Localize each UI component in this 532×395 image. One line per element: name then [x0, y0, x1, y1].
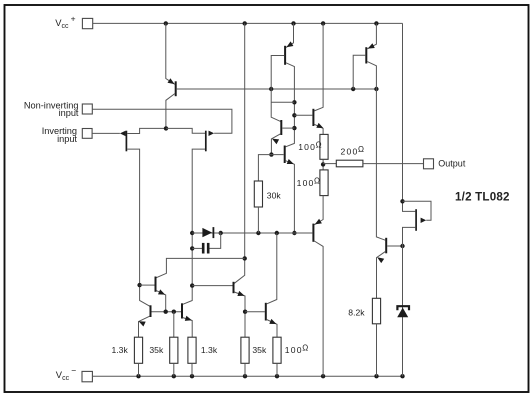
transistor Q5 emitter wire to R7: [314, 124, 323, 134]
transistor Q6 emitter arrow: [287, 159, 294, 164]
resistor R7 100ohm: [320, 134, 328, 159]
transistor Q11 emitter arrow: [237, 291, 244, 296]
resistor R2 35k: [170, 337, 178, 363]
wire node to R9: [323, 163, 336, 165]
transistor Q11 base wire: [192, 285, 232, 287]
wire R10 to Vcc-: [376, 324, 378, 376]
transistor Q4 (NPN) collector wire from bus: [271, 89, 280, 121]
transistor Q3 base wire to bus: [353, 55, 365, 89]
transistor Q7 (PNP) emitter arrow: [315, 219, 322, 225]
transistor Q2 emitter arrow: [286, 41, 293, 47]
terminal Vcc+: [82, 18, 92, 28]
transistor Q13 emitter arrow: [377, 257, 384, 263]
wire R4 to Vcc-: [244, 363, 246, 376]
transistor J2 (input JFET) gate bar: [205, 131, 207, 152]
wire Q12 base line: [245, 311, 265, 313]
wire R3 to Vcc-: [191, 363, 193, 376]
transistor Q1 emitter arrow: [168, 78, 175, 84]
resistor R8 100ohm: [320, 170, 328, 196]
wire Q9/Q10 base line: [152, 311, 182, 313]
transistor Q4 emitter wire: [271, 134, 280, 155]
transistor Q3 emitter arrow: [368, 43, 375, 48]
transistor Q8 base wire: [140, 284, 155, 286]
node Q13 base junction: [400, 244, 404, 248]
node diode line junctions: [219, 231, 223, 235]
transistor J1 source wire to tail: [127, 128, 166, 133]
node middle rail junction: [243, 256, 247, 260]
node base bus junctions: [269, 87, 273, 91]
svg-text:Output: Output: [438, 159, 466, 169]
transistor Q8 emitter arrow: [158, 289, 165, 294]
transistor J3 source wire down to Q13 base and D2: [403, 227, 416, 376]
resistor R5 100ohm: [273, 337, 281, 363]
transistor J2 drain wire down to Q10 collector: [183, 149, 205, 304]
resistor R4 35k: [241, 337, 249, 363]
capacitor C1 plates: [202, 243, 205, 254]
transistor Q6 base wire to R6 30k: [258, 155, 283, 181]
transistor J1 drain wire down to Q9 collector: [127, 149, 150, 306]
transistor Q12 (NPN) bar: [265, 303, 267, 321]
diode D1: [202, 228, 212, 237]
transistor Q11 (NPN) bar: [233, 282, 235, 293]
svg-text:35k: 35k: [149, 345, 164, 355]
resistor R3 1.3k: [188, 337, 196, 363]
transistor Q13 (NPN) bar: [385, 238, 387, 254]
wire R8 to Q7 emitter: [314, 196, 323, 225]
transistor Q9 (NPN) bar: [150, 305, 152, 317]
transistor Q10 emitter wire to R3: [183, 318, 192, 338]
transistor Q5 bar: [312, 109, 314, 126]
wire Q1 base bus: [177, 88, 377, 90]
wire Q4 collector tie to middle column: [271, 101, 294, 103]
transistor Q12 collector wire up to diode line: [267, 233, 277, 304]
terminal non-inverting input: [82, 104, 92, 114]
node J3 gate/drain junction: [400, 199, 404, 203]
transistor J1 gate bar: [125, 131, 127, 152]
transistor Q8 emitter wire: [156, 291, 165, 312]
transistor Q1 bar: [175, 81, 177, 96]
wire diode line (Q7 base line): [192, 232, 312, 234]
transistor Q12 emitter wire to R5: [267, 320, 277, 338]
transistor J3 gate loop wire: [403, 201, 432, 220]
svg-text:8.2k: 8.2k: [348, 307, 365, 317]
transistor Q6 emitter wire down middle column: [286, 161, 295, 233]
node tail junction: [164, 126, 168, 130]
diode D2: [397, 308, 408, 318]
transistor Q2 collector wire down middle column: [286, 63, 295, 147]
node Q6 emitter column to diode line junction: [292, 231, 296, 235]
transistor Q2 (PNP) emitter wire from Vcc+: [286, 23, 294, 47]
svg-text:1.3k: 1.3k: [112, 345, 129, 355]
capacitor C1 left wire: [192, 247, 202, 249]
transistor Q11 emitter wire: [234, 292, 245, 337]
wire R7 to node: [322, 159, 324, 170]
transistor J3 gate arrow: [421, 218, 427, 223]
transistor Q8 (NPN) bar: [155, 277, 157, 292]
transistor J2 gate arrow: [209, 131, 215, 136]
svg-text:input: input: [57, 134, 77, 144]
transistor J3 (JFET) gate bar: [415, 209, 417, 231]
wire inverting input to J1 gate: [92, 132, 120, 134]
transistor Q5 base wire: [294, 114, 312, 116]
wire D1 cathode to line: [214, 232, 220, 234]
svg-text:30k: 30k: [267, 191, 282, 201]
wire Q8 collector link: [156, 258, 244, 277]
wire Vcc- rail: [92, 375, 402, 377]
transistor Q4 bar: [280, 120, 282, 135]
transistor Q1 (PNP) emitter wire from Vcc+: [166, 23, 175, 84]
transistor Q7 collector wire to Vcc-: [314, 241, 323, 376]
wire non-inverting input to J2 gate: [92, 109, 232, 133]
node Q4 emitter / Q6 base junction: [269, 152, 273, 156]
transistor Q6 (NPN) bar: [284, 146, 286, 164]
transistor Q2 bar: [284, 46, 286, 65]
wire Vcc+ right rail down to J3: [403, 23, 416, 211]
transistor Q5 (NPN) collector wire from Vcc+: [314, 23, 323, 111]
wire tail to J2 source: [166, 128, 205, 133]
transistor Q12 emitter arrow: [269, 319, 276, 324]
transistor Q3 collector wire down to Q13: [367, 62, 385, 241]
transistor Q4 emitter arrow: [272, 139, 279, 145]
wire Vcc+ middle rail down to Q11 collector: [234, 23, 244, 283]
transistor Q9 emitter wire to R1: [139, 316, 150, 337]
transistor Q5 emitter arrow: [316, 123, 323, 128]
transistor Q3 (PNP) emitter wire from Vcc+: [367, 23, 376, 48]
transistor Q13 base wire: [387, 245, 402, 247]
wire Vcc+ rail: [93, 22, 403, 24]
svg-text:input: input: [59, 108, 79, 118]
node Vcc+ rail junctions: [164, 21, 168, 25]
terminal Vcc-: [82, 371, 92, 381]
wire R5 to Vcc-: [276, 363, 278, 376]
wire base line to R2: [173, 312, 175, 338]
wire R6 to diode line: [257, 207, 259, 233]
resistor R1 1.3k: [134, 337, 142, 363]
svg-text:1.3k: 1.3k: [201, 345, 218, 355]
node Vcc- rail junctions: [136, 374, 140, 378]
resistor R10 8.2k: [372, 298, 380, 324]
node middle column junctions: [292, 100, 296, 104]
capacitor C1 right wire up to diode line: [210, 233, 221, 248]
wire R9 to output terminal: [363, 163, 424, 165]
wire R2 to Vcc-: [173, 363, 175, 376]
transistor Q4 base wire: [282, 127, 294, 129]
transistor Q10 (NPN) bar: [181, 303, 183, 318]
svg-text:1/2 TL082: 1/2 TL082: [455, 190, 510, 203]
node J2 drain junctions: [190, 231, 194, 235]
resistor R9 200ohm: [336, 160, 363, 167]
node Q11 emitter / Q12 base junction: [243, 310, 247, 314]
transistor J1 (input JFET) gate arrow: [120, 131, 126, 136]
transistor Q13 emitter wire to R10: [377, 252, 386, 299]
node R7/R8/R9 junction: [321, 162, 325, 166]
wire R1 to Vcc-: [138, 363, 140, 376]
terminal inverting input: [82, 129, 92, 139]
transistor Q9 emitter arrow: [139, 321, 146, 326]
transistor Q7 bar: [312, 224, 314, 242]
resistor R6 30k: [254, 181, 262, 207]
transistor Q2 base wire to bus: [271, 56, 284, 90]
svg-text:35k: 35k: [252, 345, 267, 355]
terminal Output: [424, 159, 434, 169]
transistor Q1 collector wire to tail node: [166, 94, 175, 129]
transistor Q10 emitter arrow: [185, 316, 192, 321]
node J1 drain / Q8 base junction: [137, 283, 141, 287]
node base line junctions: [164, 310, 168, 314]
transistor Q3 bar: [365, 47, 367, 63]
